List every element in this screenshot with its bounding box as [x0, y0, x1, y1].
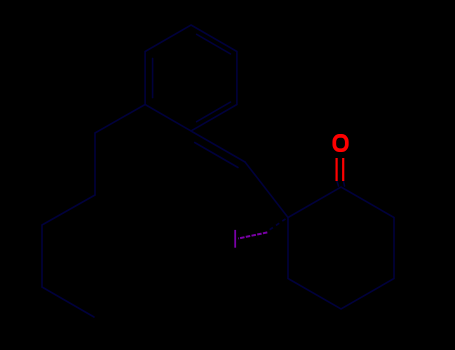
pentyl chain bond 5 [42, 287, 94, 317]
pentyl chain bond 1 [95, 105, 145, 134]
pentyl chain bond 4 [41, 225, 43, 287]
C=O bond navy stub right [343, 180, 344, 186]
hashed stereo bond C2 to I, navy dashes [270, 219, 286, 230]
vinyl C=C double bond (second line) [195, 143, 238, 168]
benzene inner double-bond line, top-right edge [197, 34, 231, 54]
benzene inner double-bond line, left edge [152, 58, 154, 97]
benzene inner double-bond line, bottom-right edge [197, 102, 231, 122]
pentyl chain bond 3 [42, 195, 95, 225]
C=O double bond red lines [337, 158, 344, 181]
hashed stereo bond C2 to I, purple dashes [238, 232, 267, 238]
pentyl chain bond 2 [94, 133, 96, 195]
C=O bond navy stub left [337, 180, 339, 186]
vinyl C=C double bond (main line) [191, 131, 245, 162]
cyclohexanone ring [288, 187, 394, 309]
benzene ring [145, 25, 237, 131]
iodine I label [234, 230, 236, 248]
bond =CH to C2 of ketone ring [245, 162, 288, 218]
oxygen O label [334, 136, 347, 150]
